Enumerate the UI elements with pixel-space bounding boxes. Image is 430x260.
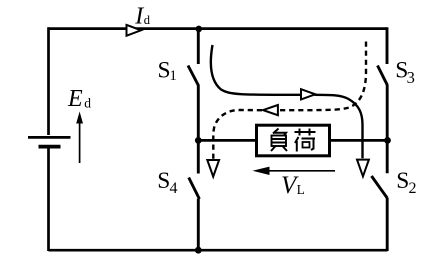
arrow Id open triangle on top wire — [127, 25, 142, 36]
node left load junction dot — [195, 137, 202, 144]
wire left bridge leg: top junction to S1 upper terminal — [197, 29, 200, 64]
wire left vertical upper (source positive lead) — [47, 27, 50, 135]
wire right bridge leg: top corner to S3 upper terminal — [386, 27, 389, 64]
switch S3 blade — [378, 66, 388, 85]
wire bottom horizontal — [49, 249, 388, 252]
svg-text:L: L — [297, 182, 305, 197]
switch S2 blade — [372, 176, 388, 198]
svg-text:2: 2 — [409, 180, 417, 197]
wire load horizontal (node between legs) — [198, 139, 387, 142]
arrow open down at solid path end — [357, 160, 369, 177]
svg-text:S: S — [396, 168, 409, 194]
node top junction dot — [196, 26, 203, 33]
svg-text:E: E — [67, 86, 83, 112]
wire right bridge leg: S3 to S2 upper terminal — [386, 85, 389, 174]
svg-text:3: 3 — [407, 68, 415, 87]
dashed current path curve (S3-S4 conduction) — [213, 42, 366, 159]
wire left bridge leg: S4 to bottom wire — [197, 199, 200, 250]
svg-text:d: d — [144, 13, 151, 27]
battery E (long plate) — [28, 136, 71, 139]
arrow Ed direction (filled up arrow) — [79, 122, 81, 163]
svg-text:I: I — [134, 3, 144, 29]
arrow open down at dashed path end — [207, 160, 219, 177]
switch S4 blade — [189, 178, 200, 200]
battery E (short plate) — [39, 145, 61, 149]
node right load junction dot — [384, 137, 391, 144]
svg-text:d: d — [84, 96, 91, 111]
wire left bridge leg: S1 to S4 upper terminal — [197, 86, 200, 174]
wire top horizontal — [49, 27, 388, 30]
svg-text:S: S — [157, 168, 170, 194]
load kanji FU (negative/bear) hand-drawn — [271, 129, 287, 152]
arrow open right on solid path — [301, 89, 315, 99]
wire right bridge leg: S2 to bottom wire — [386, 198, 389, 251]
wire left vertical lower (source negative lead) — [47, 148, 50, 251]
load kanji KA (carry) hand-drawn — [295, 129, 316, 152]
solid current path curve (S1-S2 conduction) — [211, 45, 363, 158]
svg-text:1: 1 — [170, 68, 177, 84]
load box (fuka) — [257, 125, 330, 156]
svg-text:4: 4 — [170, 180, 178, 197]
arrow VL (filled left arrow) — [258, 170, 335, 172]
switch S1 blade — [188, 66, 199, 86]
node bottom left junction dot — [195, 247, 202, 254]
arrow open left on dashed path — [263, 105, 278, 115]
